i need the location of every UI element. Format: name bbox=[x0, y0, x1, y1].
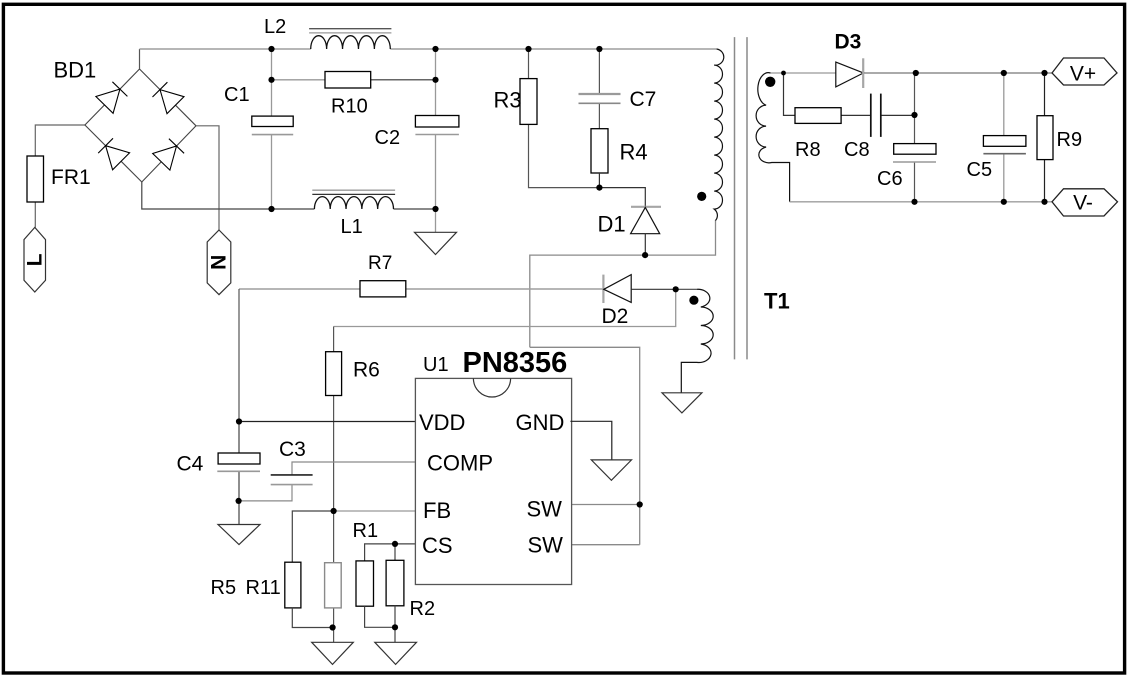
ground below C2 bbox=[415, 232, 457, 254]
labels R5 R11 bbox=[211, 577, 281, 599]
wire R10 row bbox=[272, 79, 436, 81]
label U1 bbox=[423, 354, 449, 376]
svg-text:R11: R11 bbox=[246, 577, 281, 599]
svg-text:R9: R9 bbox=[1057, 129, 1083, 151]
label C8 bbox=[844, 139, 870, 161]
svg-text:N: N bbox=[208, 255, 231, 270]
pin GND bbox=[516, 410, 565, 435]
svg-text:PN8356: PN8356 bbox=[463, 347, 568, 379]
pin COMP bbox=[427, 451, 493, 476]
capacitor C3 bbox=[271, 475, 313, 485]
wire C6 branch bbox=[914, 73, 916, 202]
svg-text:C3: C3 bbox=[279, 438, 306, 461]
label R1 bbox=[353, 520, 379, 542]
terminal N bbox=[207, 230, 231, 295]
svg-text:R3: R3 bbox=[494, 88, 522, 113]
label L2 bbox=[264, 16, 286, 38]
wire R5 bottom bbox=[292, 608, 333, 628]
svg-text:C2: C2 bbox=[375, 127, 401, 149]
aux phase dot bbox=[689, 296, 698, 305]
resistor R4 bbox=[591, 129, 608, 173]
svg-text:T1: T1 bbox=[764, 289, 790, 314]
wire R1 R2 bottoms bbox=[365, 606, 395, 643]
svg-text:U1: U1 bbox=[423, 354, 449, 376]
svg-text:CS: CS bbox=[422, 533, 453, 558]
svg-text:R6: R6 bbox=[353, 359, 380, 382]
svg-text:R10: R10 bbox=[331, 96, 368, 118]
ground below aux winding bbox=[662, 393, 702, 413]
diode D2 bbox=[603, 275, 675, 303]
wire GND pin to ground bbox=[570, 421, 611, 460]
wire D1 node to SW chain bbox=[530, 255, 645, 545]
wire R7 net bbox=[239, 289, 603, 422]
label C1 bbox=[224, 84, 250, 106]
svg-text:L2: L2 bbox=[264, 16, 286, 38]
wire R9 branch bbox=[1044, 73, 1046, 202]
label FR1 bbox=[51, 166, 91, 189]
capacitor C4 bbox=[217, 453, 260, 471]
inductor L2 bbox=[309, 29, 391, 49]
label C2 bbox=[375, 127, 401, 149]
svg-text:C1: C1 bbox=[224, 84, 250, 106]
pin SW1 bbox=[527, 497, 563, 522]
svg-text:R4: R4 bbox=[620, 140, 648, 165]
pin CS bbox=[422, 533, 453, 558]
label C7 bbox=[630, 88, 657, 111]
label D3 bbox=[835, 31, 862, 54]
label T1 bbox=[764, 289, 790, 314]
svg-text:C6: C6 bbox=[877, 168, 903, 190]
wire bridge bottom to DC- rail bbox=[142, 182, 436, 209]
primary phase dot bbox=[697, 192, 706, 201]
capacitor C8 bbox=[871, 94, 881, 137]
transformer T1 secondary winding bbox=[756, 73, 790, 202]
wire L lead to FR1 bbox=[35, 125, 85, 227]
ground below GND pin bbox=[591, 460, 631, 480]
label C4 bbox=[177, 453, 204, 476]
svg-text:BD1: BD1 bbox=[54, 58, 97, 83]
wire D2 anode to R6 top bbox=[334, 289, 676, 326]
wire CS net bbox=[365, 544, 416, 561]
terminal L bbox=[23, 227, 46, 292]
svg-text:R5: R5 bbox=[211, 577, 237, 599]
wire VDD rail bbox=[239, 421, 415, 423]
diode D3 bbox=[836, 58, 864, 88]
wire D1 node to primary bottom bbox=[645, 220, 715, 255]
wire V+ top rail bbox=[771, 72, 1052, 74]
label C6 bbox=[877, 168, 903, 190]
wire bridge top to top rail bbox=[140, 49, 717, 69]
resistor R10 bbox=[325, 72, 371, 89]
wire V- bottom rail bbox=[790, 201, 1052, 203]
label D2 bbox=[602, 305, 629, 328]
svg-text:C7: C7 bbox=[630, 88, 657, 111]
bridge rectifier BD1 bbox=[85, 69, 196, 182]
label C3 bbox=[279, 438, 306, 461]
svg-text:R7: R7 bbox=[368, 253, 392, 274]
svg-text:C8: C8 bbox=[844, 139, 870, 161]
pin SW2 bbox=[528, 533, 564, 558]
ground below C4 bbox=[218, 525, 260, 545]
ground below R5 R11 bbox=[312, 642, 354, 664]
inductor L1 bbox=[312, 190, 395, 209]
resistor R7 bbox=[360, 281, 406, 297]
resistor R11 bbox=[325, 511, 342, 642]
svg-text:GND: GND bbox=[516, 410, 565, 435]
svg-text:C5: C5 bbox=[967, 159, 993, 181]
ground below R1 R2 bbox=[375, 642, 417, 664]
wire C5 branch bbox=[1003, 73, 1005, 202]
resistor R3 bbox=[520, 79, 537, 125]
svg-text:SW: SW bbox=[527, 497, 563, 522]
label R4 bbox=[620, 140, 648, 165]
label R8 bbox=[795, 139, 821, 161]
svg-text:V+: V+ bbox=[1070, 63, 1096, 86]
resistor R5 bbox=[285, 562, 301, 608]
transformer T1 aux winding bbox=[681, 289, 713, 393]
svg-text:R2: R2 bbox=[410, 598, 436, 620]
label R3 bbox=[494, 88, 522, 113]
resistor R2 bbox=[386, 560, 404, 606]
resistor R1 bbox=[356, 561, 374, 606]
transformer core bbox=[735, 37, 748, 359]
label R10 bbox=[331, 96, 368, 118]
wire FB net bbox=[292, 511, 415, 562]
label PN8356 bbox=[463, 347, 568, 379]
svg-text:L: L bbox=[23, 253, 46, 266]
svg-text:FB: FB bbox=[423, 498, 451, 523]
svg-text:L1: L1 bbox=[341, 216, 363, 238]
svg-text:SW: SW bbox=[528, 533, 564, 558]
terminal V+ bbox=[1052, 58, 1117, 86]
capacitor C5 bbox=[983, 136, 1026, 154]
secondary phase dot bbox=[765, 77, 775, 87]
wire C7 branch bbox=[598, 49, 600, 129]
svg-text:C4: C4 bbox=[177, 453, 204, 476]
label R6 bbox=[353, 359, 380, 382]
fuse resistor FR1 bbox=[27, 156, 44, 202]
wire R8 branch bbox=[784, 73, 915, 115]
wire R4 bottom node bbox=[599, 173, 645, 207]
wire bridge right to N bbox=[196, 126, 219, 230]
wire C2 branch bbox=[435, 49, 437, 232]
label R2 bbox=[410, 598, 436, 620]
label L1 bbox=[341, 216, 363, 238]
svg-text:R1: R1 bbox=[353, 520, 379, 542]
label C5 bbox=[967, 159, 993, 181]
capacitor C1 bbox=[252, 116, 293, 135]
wire C1 branch bbox=[271, 49, 273, 209]
wire R6 vertical to FB bbox=[333, 327, 335, 512]
capacitor C6 bbox=[893, 144, 936, 162]
terminal V- bbox=[1052, 189, 1118, 216]
svg-text:D3: D3 bbox=[835, 31, 862, 54]
label D1 bbox=[598, 212, 626, 237]
svg-text:D1: D1 bbox=[598, 212, 626, 237]
capacitor C7 bbox=[579, 94, 621, 103]
label BD1 bbox=[54, 58, 97, 83]
wire aux winding top bbox=[676, 288, 697, 290]
pin VDD bbox=[419, 410, 465, 435]
wire COMP to C3 bbox=[239, 462, 416, 501]
transformer T1 primary winding bbox=[714, 49, 724, 221]
resistor R8 bbox=[795, 108, 841, 124]
label R9 bbox=[1057, 129, 1083, 151]
svg-text:R8: R8 bbox=[795, 139, 821, 161]
svg-text:D2: D2 bbox=[602, 305, 629, 328]
svg-text:FR1: FR1 bbox=[51, 166, 91, 189]
wire R3 branch bbox=[529, 49, 600, 188]
diode D1 bbox=[631, 207, 661, 255]
resistor R9 bbox=[1037, 116, 1053, 160]
label R7 bbox=[368, 253, 392, 274]
capacitor C2 bbox=[415, 116, 459, 135]
pin FB bbox=[423, 498, 451, 523]
op-amp U1 IC body bbox=[415, 378, 571, 584]
svg-text:VDD: VDD bbox=[419, 410, 465, 435]
svg-text:COMP: COMP bbox=[427, 451, 493, 476]
resistor R6 bbox=[326, 352, 342, 396]
svg-text:V-: V- bbox=[1073, 192, 1093, 215]
wire C4 branch bbox=[238, 422, 240, 525]
